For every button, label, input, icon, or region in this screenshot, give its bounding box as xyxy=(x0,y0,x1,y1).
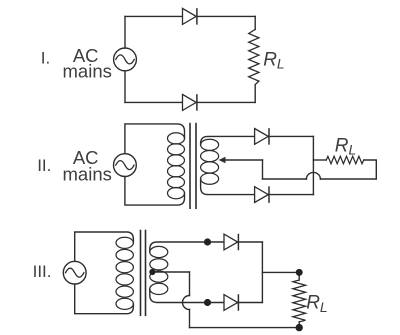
svg-text:III.: III. xyxy=(33,262,52,281)
transformer T1 secondary winding circuit II xyxy=(201,139,219,184)
wire: RL top lead circuit III xyxy=(298,272,300,280)
wire: primary top lead circuit III xyxy=(75,232,134,261)
wire: secondary top rail circuit II xyxy=(201,136,314,144)
AC source circuit III xyxy=(63,261,86,284)
wire: center tap vertical upper circuit III xyxy=(189,272,191,296)
AC source circuit I xyxy=(114,48,137,71)
wire: secondary bottom rail circuit II xyxy=(201,179,314,195)
diode D1 top circuit I xyxy=(183,8,197,24)
diode D1 circuit III (top) xyxy=(224,234,238,250)
wire: bottom return rail circuit III xyxy=(190,327,300,329)
transformer T2 primary winding circuit III xyxy=(116,237,133,309)
svg-text:I.: I. xyxy=(41,48,50,67)
wire: left wire lower (source bottom lead) xyxy=(124,71,126,103)
transformer T1 primary winding circuit II xyxy=(168,133,185,199)
wire: bottom return right of hop circuit II xyxy=(320,160,376,179)
wire: RL bottom lead circuit III xyxy=(298,322,300,328)
transformer T2 secondary winding circuit III xyxy=(150,246,168,294)
resistor RL circuit III (vertical zigzag) xyxy=(293,280,306,322)
arrowhead center tap circuit II xyxy=(219,157,226,164)
wire: top rail circuit I xyxy=(125,15,255,17)
wire: RL left lead circuit II xyxy=(313,159,326,161)
wire: bottom return left of hop circuit II xyxy=(263,178,307,180)
diode D2 circuit II (bottom) xyxy=(255,187,269,203)
junction dot RL bottom circuit III xyxy=(296,324,303,331)
transformer T2 core circuit III xyxy=(140,231,142,316)
wire hop over junction circuit II xyxy=(306,172,320,179)
diode D2 circuit III (bottom) xyxy=(224,295,238,311)
junction dot secondary top circuit III xyxy=(204,238,211,245)
wire: center tap vertical lower circuit III xyxy=(189,310,191,328)
junction dot center tap circuit III xyxy=(149,269,155,275)
diode D2 bottom circuit I xyxy=(183,94,197,110)
wire: secondary bottom rail circuit III xyxy=(150,289,263,303)
wire: center tap horizontal circuit III xyxy=(152,271,189,273)
wire: primary bottom lead circuit II xyxy=(125,176,185,205)
transformer T1 core circuit II xyxy=(189,124,191,209)
wire: right wire lower from RL xyxy=(254,85,256,103)
wire: bottom rail circuit I xyxy=(125,101,255,103)
wire: right wire upper to RL xyxy=(254,16,256,29)
wire: left wire upper (source top lead) xyxy=(124,16,126,48)
diode D1 circuit II (top) xyxy=(255,129,269,145)
wire hop over bottom rail circuit III xyxy=(183,296,190,310)
wire: center tap down segment circuit II xyxy=(262,160,264,179)
wire: secondary top rail circuit III xyxy=(150,242,263,252)
wire: right vertical junction circuit III xyxy=(261,242,263,303)
junction dot RL top circuit III xyxy=(296,269,303,276)
wire: right vertical junction circuit II xyxy=(312,136,314,194)
resistor RL circuit II (horizontal zigzag) xyxy=(326,156,364,163)
svg-text:II.: II. xyxy=(37,156,51,175)
wire: primary top lead circuit II xyxy=(125,124,185,154)
resistor RL circuit I (vertical zigzag) xyxy=(249,29,259,84)
wire: primary bottom lead circuit III xyxy=(75,284,134,314)
AC source circuit II xyxy=(114,154,137,177)
svg-text:mains: mains xyxy=(63,61,112,82)
junction dot secondary bottom circuit III xyxy=(204,299,211,306)
wire: junction to RL top circuit III xyxy=(262,271,299,273)
svg-text:mains: mains xyxy=(63,163,112,184)
wire: center tap lead with arrow circuit II xyxy=(225,159,263,161)
